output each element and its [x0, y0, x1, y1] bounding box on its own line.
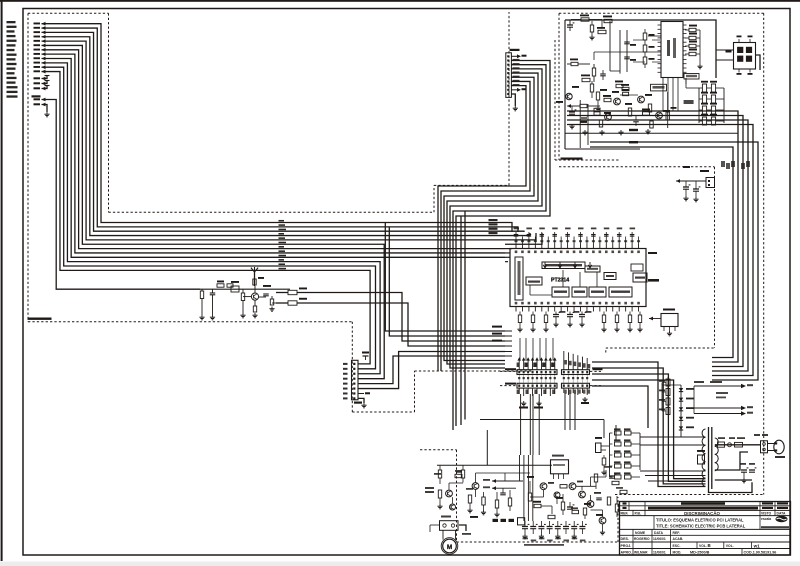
svg-text:VISTO: VISTO [761, 511, 771, 515]
svg-text:REF.: REF. [621, 511, 629, 515]
svg-text:NOME: NOME [635, 531, 646, 535]
svg-text:COD.1.90.58191.96: COD.1.90.58191.96 [744, 551, 777, 555]
svg-text:MD-2500/B: MD-2500/B [690, 550, 710, 554]
svg-text:APRO.: APRO. [621, 550, 632, 554]
svg-text:M: M [447, 544, 452, 551]
svg-text:w1: w1 [753, 543, 761, 548]
svg-text:P.B.: P.B. [635, 511, 642, 515]
svg-text:ROGERIO: ROGERIO [634, 537, 650, 541]
svg-text:escala: escala [761, 517, 771, 521]
svg-text:DES.: DES. [621, 537, 629, 541]
svg-text:DATA: DATA [777, 511, 786, 515]
svg-text:TITLE: SCHEMATIC ELECTRIC PCB: TITLE: SCHEMATIC ELECTRIC PCB LATERAL [656, 524, 746, 529]
svg-text:VOL.: VOL. [726, 544, 734, 548]
svg-text:11/06/01: 11/06/01 [653, 550, 666, 554]
svg-text:DATA: DATA [654, 531, 663, 535]
svg-text:ESC.: ESC. [673, 544, 681, 548]
svg-text:TITULO: ESQUEMA ELETRICO PCI L: TITULO: ESQUEMA ELETRICO PCI LATERAL [656, 518, 744, 523]
svg-text:B: B [708, 543, 711, 548]
svg-text:ACAB.: ACAB. [673, 537, 684, 541]
svg-text:PT2314: PT2314 [551, 278, 569, 284]
svg-text:PROJ.: PROJ. [621, 544, 632, 548]
svg-text:11/06/01: 11/06/01 [653, 537, 666, 541]
svg-text:WILMAR: WILMAR [634, 550, 648, 554]
svg-text:MOD.: MOD. [673, 550, 682, 554]
svg-text:DISCRIMINAÇÃO: DISCRIMINAÇÃO [684, 511, 720, 516]
svg-text:REF.: REF. [673, 531, 680, 535]
svg-text:VOL.: VOL. [699, 544, 707, 548]
